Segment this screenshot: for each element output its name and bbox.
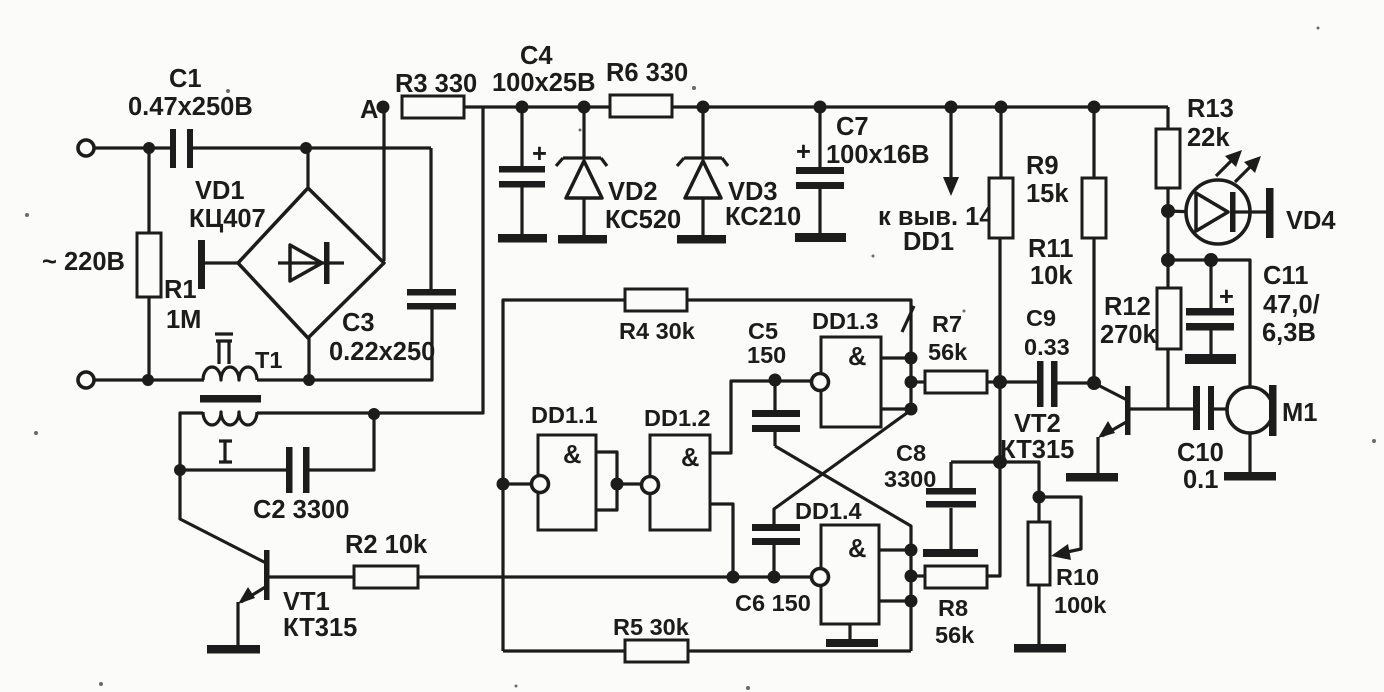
svg-text:R6 330: R6 330: [606, 59, 688, 87]
svg-text:47,0/: 47,0/: [1263, 291, 1320, 319]
svg-text:C9: C9: [1026, 305, 1056, 331]
node DD1.3 pin1: [905, 352, 918, 365]
svg-text:&: &: [848, 535, 866, 563]
svg-text:DD1.1: DD1.1: [531, 402, 598, 428]
node R1 top: [143, 142, 155, 154]
svg-text:56k: 56k: [928, 339, 968, 365]
wire frame bottom with R5: [503, 649, 911, 652]
capacitor C1: [128, 65, 253, 168]
svg-text:100x16В: 100x16В: [826, 141, 930, 169]
svg-text:+: +: [532, 140, 547, 168]
svg-text:C5: C5: [748, 318, 778, 344]
svg-text:R3 330: R3 330: [395, 70, 477, 98]
resistor R7: [911, 311, 1000, 393]
svg-text:0.1: 0.1: [1183, 466, 1218, 494]
svg-text:VD1: VD1: [195, 177, 245, 205]
svg-text:0.33: 0.33: [1024, 334, 1070, 360]
node bridge top: [300, 142, 312, 154]
logic gate DD1.4: [795, 498, 879, 624]
svg-text:C3: C3: [342, 309, 375, 337]
zener diode VD3: [677, 107, 801, 236]
ground VT2 emitter: [1066, 473, 1118, 482]
node C7: [814, 101, 827, 114]
wire DD1.3 output pins: [881, 358, 911, 409]
svg-text:22k: 22k: [1187, 124, 1230, 152]
svg-text:150: 150: [747, 342, 786, 368]
svg-text:C2 3300: C2 3300: [253, 496, 349, 524]
node DD1.2 pin on R2 wire: [727, 571, 740, 584]
svg-text:+: +: [796, 138, 811, 166]
wire DD1.2 top pin to C5 node: [710, 381, 812, 453]
LED arrows: [1216, 150, 1261, 182]
node R7 tap: [905, 376, 918, 389]
resistor R11: [1028, 107, 1106, 383]
svg-text:R8: R8: [938, 595, 968, 621]
capacitor C3: [329, 148, 456, 366]
ground M1: [1224, 472, 1276, 481]
node DD1.1 input: [497, 478, 510, 491]
svg-text:DD1: DD1: [903, 228, 954, 256]
ground C11: [1185, 354, 1236, 364]
svg-text:КТ315: КТ315: [1000, 436, 1074, 464]
svg-text:+: +: [1219, 283, 1234, 311]
logic gate DD1.1: [531, 402, 598, 530]
svg-text:DD1.2: DD1.2: [644, 405, 711, 431]
node DD1.3 pin2: [905, 403, 918, 416]
node R9: [995, 101, 1008, 114]
ground VD2: [558, 235, 607, 244]
input terminal bottom: [78, 372, 94, 388]
wire: [94, 146, 171, 149]
resistor R1: [137, 148, 201, 380]
wire top supply rail: [464, 105, 1168, 108]
microphone M1: [1227, 385, 1317, 473]
node R11: [1088, 101, 1101, 114]
node R7 C9 junction: [993, 375, 1007, 389]
svg-text:КТ315: КТ315: [283, 614, 357, 642]
wire to DD1.1: [503, 482, 533, 485]
wire bottom line: [94, 378, 204, 381]
LED VD4: [1168, 180, 1336, 244]
wire diagonal C5 to DD1.4 net: [775, 446, 911, 651]
svg-text:КС210: КС210: [725, 203, 801, 231]
wire secondary right to top rail: [257, 107, 483, 413]
capacitor C4: [492, 42, 596, 235]
logic gate DD1.3: [812, 308, 882, 427]
svg-text:C1: C1: [169, 65, 202, 93]
ground DD1.4: [826, 624, 878, 647]
svg-text:R2 10k: R2 10k: [345, 531, 428, 559]
wire node A vertical: [382, 107, 385, 261]
ground C8: [923, 549, 978, 557]
resistor R3: [395, 70, 477, 118]
svg-text:DD1.3: DD1.3: [812, 308, 879, 334]
resistor R9: [989, 107, 1069, 238]
node C11 top: [1204, 253, 1218, 267]
node C2 left: [174, 464, 186, 476]
transformer T1 primary winding II: [203, 334, 282, 380]
node C5 top: [769, 374, 782, 387]
resistor R4: [619, 289, 696, 344]
node C4: [516, 101, 529, 114]
node R12 top: [1161, 253, 1175, 267]
capacitor C6: [735, 524, 811, 616]
svg-text:M1: M1: [1282, 399, 1317, 427]
svg-text:A: A: [360, 96, 378, 124]
svg-text:R4 30k: R4 30k: [619, 318, 696, 344]
wire R9 to R8 vertical: [987, 238, 1000, 576]
wire bridge top stub: [306, 148, 309, 190]
capacitor C10: [1177, 386, 1228, 494]
svg-text:0.22x250: 0.22x250: [329, 338, 435, 366]
transistor VT2: [1000, 383, 1193, 474]
svg-text:КС520: КС520: [605, 206, 681, 234]
svg-text:C10: C10: [1177, 439, 1224, 467]
resistor R12: [1100, 260, 1181, 409]
svg-text:C8: C8: [896, 440, 926, 466]
svg-text:C4: C4: [520, 42, 553, 70]
svg-text:56k: 56k: [935, 622, 975, 648]
node R8 tap: [905, 570, 918, 583]
capacitor C8: [884, 440, 1000, 550]
svg-text:C7: C7: [836, 113, 869, 141]
capacitor C11: [1186, 260, 1320, 355]
svg-text:VD4: VD4: [1286, 207, 1336, 235]
svg-text:3300: 3300: [884, 466, 936, 492]
ground VD4: [1266, 188, 1274, 238]
svg-text:КЦ407: КЦ407: [189, 205, 266, 233]
resistor R6: [606, 59, 688, 117]
ground at bridge left: [198, 240, 238, 289]
ground C7: [795, 233, 846, 242]
ground R10: [1014, 644, 1066, 653]
wire LED to R12 C11: [1166, 211, 1169, 260]
svg-text:DD1.4: DD1.4: [795, 498, 862, 524]
svg-text:R7: R7: [932, 311, 962, 337]
wire: [193, 146, 431, 149]
node DD1.4 pin2: [905, 595, 918, 608]
node C8 R10 junction: [993, 455, 1007, 469]
svg-text:VD3: VD3: [728, 178, 778, 206]
svg-text:C6 150: C6 150: [735, 590, 811, 616]
wire R2 to DD1.4 input: [418, 575, 812, 578]
svg-text:VT1: VT1: [283, 588, 330, 616]
svg-text:R5 30k: R5 30k: [613, 614, 690, 640]
svg-text:15k: 15k: [1026, 180, 1069, 208]
node A: [377, 101, 390, 114]
svg-text:R1: R1: [164, 276, 197, 304]
capacitor C2: [180, 414, 374, 524]
node VD2: [578, 101, 591, 114]
node VD3: [697, 101, 710, 114]
resistor R5: [613, 614, 690, 662]
node VT2 base: [1087, 376, 1101, 390]
wire to M1: [1168, 260, 1250, 388]
zener diode VD2: [556, 107, 681, 236]
wire bridge bottom stub: [307, 338, 310, 380]
svg-text:R11: R11: [1028, 235, 1073, 263]
svg-text:VD2: VD2: [608, 178, 658, 206]
wire: [617, 482, 643, 485]
wire to C3 bottom: [257, 309, 432, 380]
svg-text:R9: R9: [1026, 152, 1059, 180]
transistor VT1: [180, 470, 357, 646]
wire diagonal DD1.3 net to C6: [774, 410, 911, 524]
svg-text:R10: R10: [1056, 564, 1099, 590]
potentiometer R10: [1000, 462, 1107, 645]
ground VD3: [677, 235, 726, 244]
svg-text:0.47x250В: 0.47x250В: [128, 93, 253, 121]
wire secondary left: [180, 413, 203, 470]
svg-text:R12: R12: [1104, 293, 1151, 321]
svg-text:270k: 270k: [1100, 321, 1158, 349]
svg-text:&: &: [848, 343, 866, 371]
wire DD1.2 bottom pin down: [710, 504, 733, 577]
input terminal top: [78, 140, 94, 156]
node C6 bottom: [768, 571, 781, 584]
capacitor C7: [796, 107, 930, 234]
wire DD1.1 right pins tied: [596, 452, 617, 510]
svg-text:T1: T1: [255, 347, 282, 373]
node between DD1.1 and DD1.2: [611, 478, 624, 491]
logic gate DD1.2: [642, 405, 711, 530]
resistor R2: [345, 531, 428, 588]
svg-text:R13: R13: [1187, 95, 1234, 123]
node R1 bottom: [142, 374, 154, 386]
transformer T1 secondary winding I: [203, 412, 257, 462]
diode bridge VD1: [189, 177, 384, 338]
wire corner jog: [902, 306, 914, 332]
svg-text:&: &: [563, 441, 581, 469]
svg-text:100x25В: 100x25В: [492, 69, 596, 97]
node DD1.4 pin1: [905, 544, 918, 557]
svg-text:10k: 10k: [1030, 262, 1073, 290]
ground VT1 emitter: [207, 645, 260, 654]
resistor R13: [1156, 95, 1234, 211]
node LED anode: [1161, 204, 1175, 218]
svg-text:~ 220В: ~ 220В: [42, 248, 125, 276]
ground C4: [498, 234, 547, 243]
capacitor C9: [1000, 305, 1094, 407]
arrow to pin 14 DD1: [878, 107, 994, 256]
node supply arrow: [945, 101, 958, 114]
wire DD1.4 output pins: [879, 550, 911, 601]
transformer T1 core: [200, 395, 261, 403]
resistor R8: [911, 566, 987, 648]
svg-text:1M: 1M: [166, 306, 201, 334]
capacitor C5: [747, 318, 800, 446]
node C2 right: [368, 408, 380, 420]
svg-text:100k: 100k: [1054, 592, 1107, 618]
svg-text:C11: C11: [1263, 262, 1308, 290]
svg-text:&: &: [681, 444, 699, 472]
wire multivibrator frame top with R4: [503, 300, 911, 651]
svg-text:6,3В: 6,3В: [1262, 319, 1316, 347]
node bridge bottom: [303, 374, 315, 386]
svg-text:VT2: VT2: [1014, 410, 1061, 438]
svg-text:к выв. 14: к выв. 14: [878, 203, 994, 231]
